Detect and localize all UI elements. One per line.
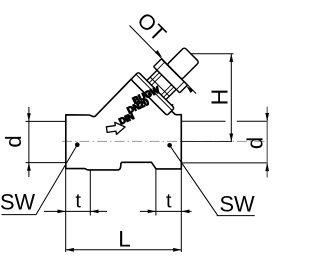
valve body outline	[66, 79, 182, 170]
svg-text:t: t	[166, 190, 172, 212]
svg-text:L: L	[118, 227, 131, 252]
dimension OT leader line	[130, 26, 197, 94]
packing gland	[147, 70, 176, 99]
svg-text:t: t	[75, 190, 81, 212]
dimension L	[66, 249, 182, 251]
dimension t right	[155, 169, 157, 215]
flow arrow on body	[106, 121, 126, 136]
leader SW right	[167, 143, 172, 148]
svg-text:d: d	[243, 137, 268, 149]
dimension H	[190, 53, 233, 55]
flange plate	[131, 72, 174, 115]
leader SW left	[75, 142, 80, 147]
svg-text:OT: OT	[132, 8, 170, 46]
wire H bottom reference line	[182, 141, 233, 143]
centerline (pipe axis, dash-dot)	[62, 140, 268, 142]
svg-text:SW: SW	[0, 190, 36, 215]
svg-text:SW: SW	[220, 192, 256, 217]
svg-text:H: H	[207, 89, 233, 106]
dimension t left	[89, 170, 91, 215]
svg-text:d: d	[1, 135, 26, 147]
dimension d left	[26, 120, 66, 122]
dimension d right	[182, 120, 226, 122]
flange face line	[136, 74, 172, 110]
bonnet stack (rotated 45°)	[131, 37, 210, 116]
stem top	[167, 47, 199, 79]
stem nut	[154, 59, 188, 93]
packing lines	[149, 73, 159, 83]
